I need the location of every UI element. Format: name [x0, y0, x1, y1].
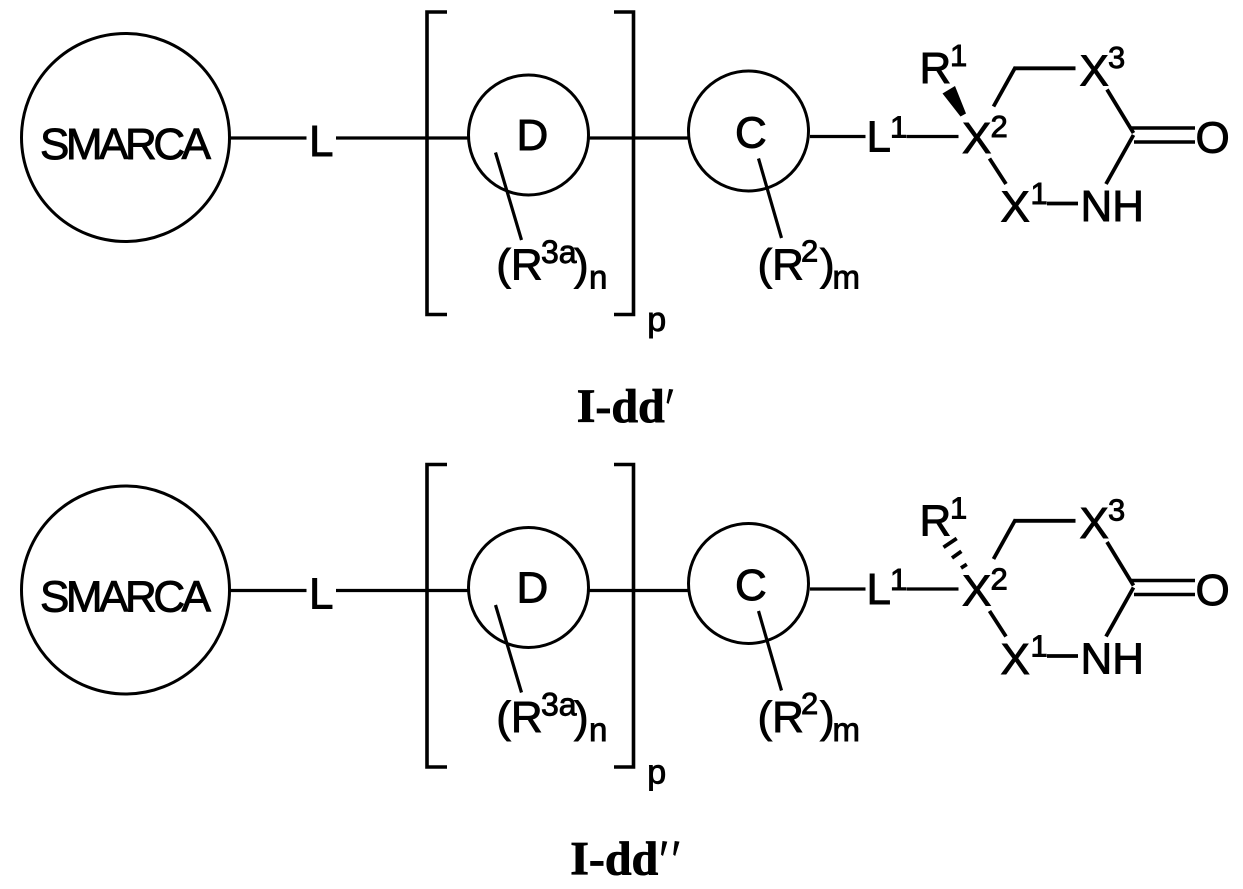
svg-text:I-dd: I-dd [570, 832, 658, 884]
svg-text:I-dd: I-dd [577, 380, 665, 433]
